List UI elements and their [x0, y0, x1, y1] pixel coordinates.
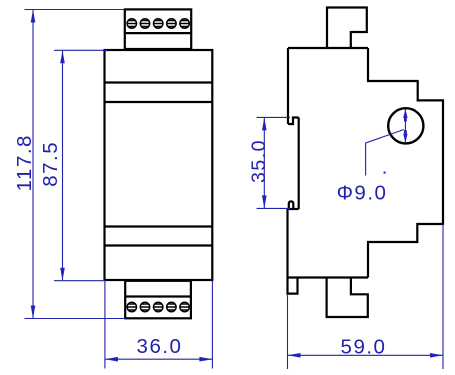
dim 35.0 extension bottom — [257, 207, 290, 209]
side body top edge — [288, 47, 368, 49]
bottom terminal block inner line — [125, 295, 191, 297]
front view upper band line 1 — [105, 81, 213, 83]
hole diameter line — [404, 109, 406, 142]
left edge lower — [286, 209, 288, 278]
small bottom-left tab — [288, 278, 298, 294]
bottom screw 5 — [180, 302, 189, 311]
bottom edge — [288, 276, 369, 278]
arrow 117.8 top — [31, 10, 36, 23]
dim 117.8 line — [32, 10, 34, 319]
top rail lip — [288, 118, 299, 125]
dim 59.0 line — [288, 354, 444, 356]
top screw 3 — [154, 19, 163, 28]
front view upper band line 2 — [105, 101, 213, 103]
top tab — [327, 8, 367, 49]
svg-text:35.0: 35.0 — [248, 139, 270, 183]
front view body outline — [105, 50, 213, 280]
hole leader line — [366, 130, 404, 176]
svg-text:59.0: 59.0 — [341, 336, 387, 359]
bottom rail lip arch — [289, 201, 294, 209]
left edge upper — [287, 48, 289, 124]
dim 59.0 extension right — [442, 224, 444, 369]
dim 87.5 extension top — [54, 49, 107, 51]
arrow 59.0 left — [288, 353, 301, 358]
arrow 35.0 bottom — [262, 195, 267, 208]
dim 36.0 extension right — [211, 281, 213, 369]
top screw 5 — [180, 19, 189, 28]
dim 36.0 extension left — [104, 281, 106, 369]
arrow 117.8 bottom — [31, 306, 36, 319]
arrow 36.0 right — [199, 357, 212, 362]
rail groove wall — [298, 118, 300, 210]
dim 87.5 line — [62, 50, 64, 280]
front view lower band line 2 — [105, 244, 213, 246]
big bottom tab — [327, 278, 368, 318]
dim 117.8 extension bottom — [25, 318, 126, 320]
front view lower band line 1 — [105, 225, 213, 227]
right staircase — [368, 48, 443, 278]
arrow hole diameter up — [403, 109, 407, 118]
bottom terminal screws — [127, 302, 189, 311]
dimension texts — [13, 134, 388, 358]
dim 35.0 extension top — [257, 116, 290, 118]
side view outline — [288, 8, 444, 318]
dim 117.8 extension top — [25, 9, 125, 11]
svg-text:36.0: 36.0 — [137, 335, 183, 358]
dim 59.0 extension left — [287, 294, 289, 369]
arrow 36.0 left — [105, 357, 118, 362]
arrow 87.5 top — [60, 50, 65, 63]
top terminal block inner line — [125, 32, 191, 34]
arrow 35.0 top — [262, 117, 267, 130]
top terminal block — [125, 9, 191, 49]
top screw 1 — [127, 19, 136, 28]
dim 36.0 line — [105, 358, 212, 360]
dim 35.0 line — [263, 117, 265, 208]
svg-text:117.8: 117.8 — [13, 134, 36, 191]
bottom screw 3 — [154, 302, 163, 311]
bottom terminal block — [125, 281, 191, 319]
groove bottom — [288, 208, 299, 210]
arrow 87.5 bottom — [60, 268, 65, 281]
leader dot artifact — [384, 172, 386, 174]
svg-text:Φ9.0: Φ9.0 — [337, 182, 388, 205]
bottom screw 4 — [167, 302, 176, 311]
top screw 4 — [167, 19, 176, 28]
dim 87.5 extension bottom — [54, 280, 106, 282]
arrow 59.0 right — [430, 353, 443, 358]
bottom screw 2 — [140, 302, 149, 311]
top screw 2 — [140, 19, 149, 28]
arrow hole diameter down — [403, 134, 407, 143]
hole circle — [388, 108, 423, 143]
svg-text:87.5: 87.5 — [39, 141, 62, 187]
bottom screw 1 — [127, 302, 136, 311]
top terminal screws — [127, 19, 189, 28]
